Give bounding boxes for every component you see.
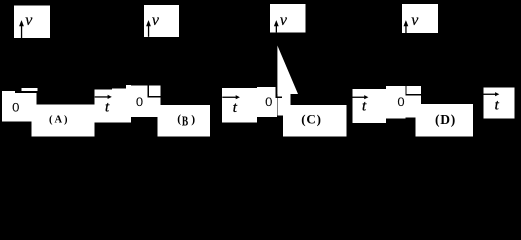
panel B: white area under t-axis at origin [148, 98, 161, 118]
panel A: t-axis box middle step [112, 89, 126, 123]
panel D: white square right of v-axis [407, 86, 421, 94]
panel A: t-axis box right step [126, 85, 131, 123]
panel C: t-axis white box [352, 89, 386, 123]
panel A: band main part [31, 105, 94, 137]
panel C: origin white box [257, 87, 277, 117]
panel B: band [160, 105, 209, 136]
panel C: white under origin t-axis [277, 98, 283, 116]
svg-text:O: O [398, 96, 405, 110]
panel C: white triangle (halo of steep descending curve) [277, 46, 298, 95]
panel A: v-axis white box [14, 6, 50, 39]
panel A: v-axis arrow [19, 20, 24, 38]
svg-text:(C): (C) [301, 112, 321, 127]
svg-text:O: O [265, 95, 272, 109]
svg-text:v: v [152, 12, 160, 29]
svg-text:B: B [182, 114, 188, 129]
panel B: t-axis white box [222, 88, 257, 122]
panel D: t-axis arrow [483, 92, 499, 96]
panel D: v-axis white box [402, 4, 438, 33]
panel C: white joining band [283, 98, 291, 106]
svg-text:v: v [411, 12, 419, 29]
panel B: v-axis arrow [146, 20, 151, 37]
panel D: t-axis white box [483, 88, 514, 119]
panel A: white halo above curve [22, 88, 38, 91]
panel B: v-axis white box [144, 5, 179, 37]
panel D: origin white box left of axis [386, 86, 405, 118]
svg-text:O: O [136, 95, 143, 109]
svg-text:(A): (A) [49, 114, 68, 125]
svg-text:): ) [191, 114, 195, 126]
panel A: t-axis arrow [95, 95, 112, 99]
panel C: band [283, 105, 347, 136]
svg-text:v: v [280, 12, 288, 29]
panel C: t-axis line segment at origin [277, 97, 282, 98]
panel C: v-axis white box [270, 4, 306, 33]
panel B: white column below origin area [158, 117, 161, 136]
panel B: t-axis line segment at origin [149, 96, 161, 97]
panel D: band [415, 104, 473, 136]
panel D: v-axis arrow [404, 20, 409, 33]
panel D: t-axis line segment at origin [407, 94, 421, 95]
panel C: v-axis line segment at origin [276, 87, 277, 98]
panel C: v-axis arrow [274, 20, 279, 32]
svg-text:(: ( [177, 114, 181, 126]
panel D: white column joining band [415, 96, 421, 104]
svg-text:O: O [12, 101, 19, 115]
svg-text:(D): (D) [435, 112, 455, 127]
panel B: white square right of v-axis [149, 86, 161, 97]
panel D: v-axis line segment at origin [405, 86, 406, 96]
panel A: origin white box [2, 91, 36, 105]
panel B: t-axis arrow [222, 95, 240, 99]
panel D: white under origin t-axis [405, 96, 415, 118]
svg-text:v: v [25, 12, 33, 29]
panel A: band left part [2, 105, 31, 122]
panel A: t-axis white box [95, 90, 126, 123]
panel A: curve segment (horizontal black bar) [15, 91, 38, 93]
A/B boundary white block [131, 86, 148, 118]
panel C: t-axis arrow [352, 95, 368, 99]
panel C: white strip under triangle [277, 94, 290, 98]
panel B: v-axis line segment at origin [148, 86, 149, 98]
